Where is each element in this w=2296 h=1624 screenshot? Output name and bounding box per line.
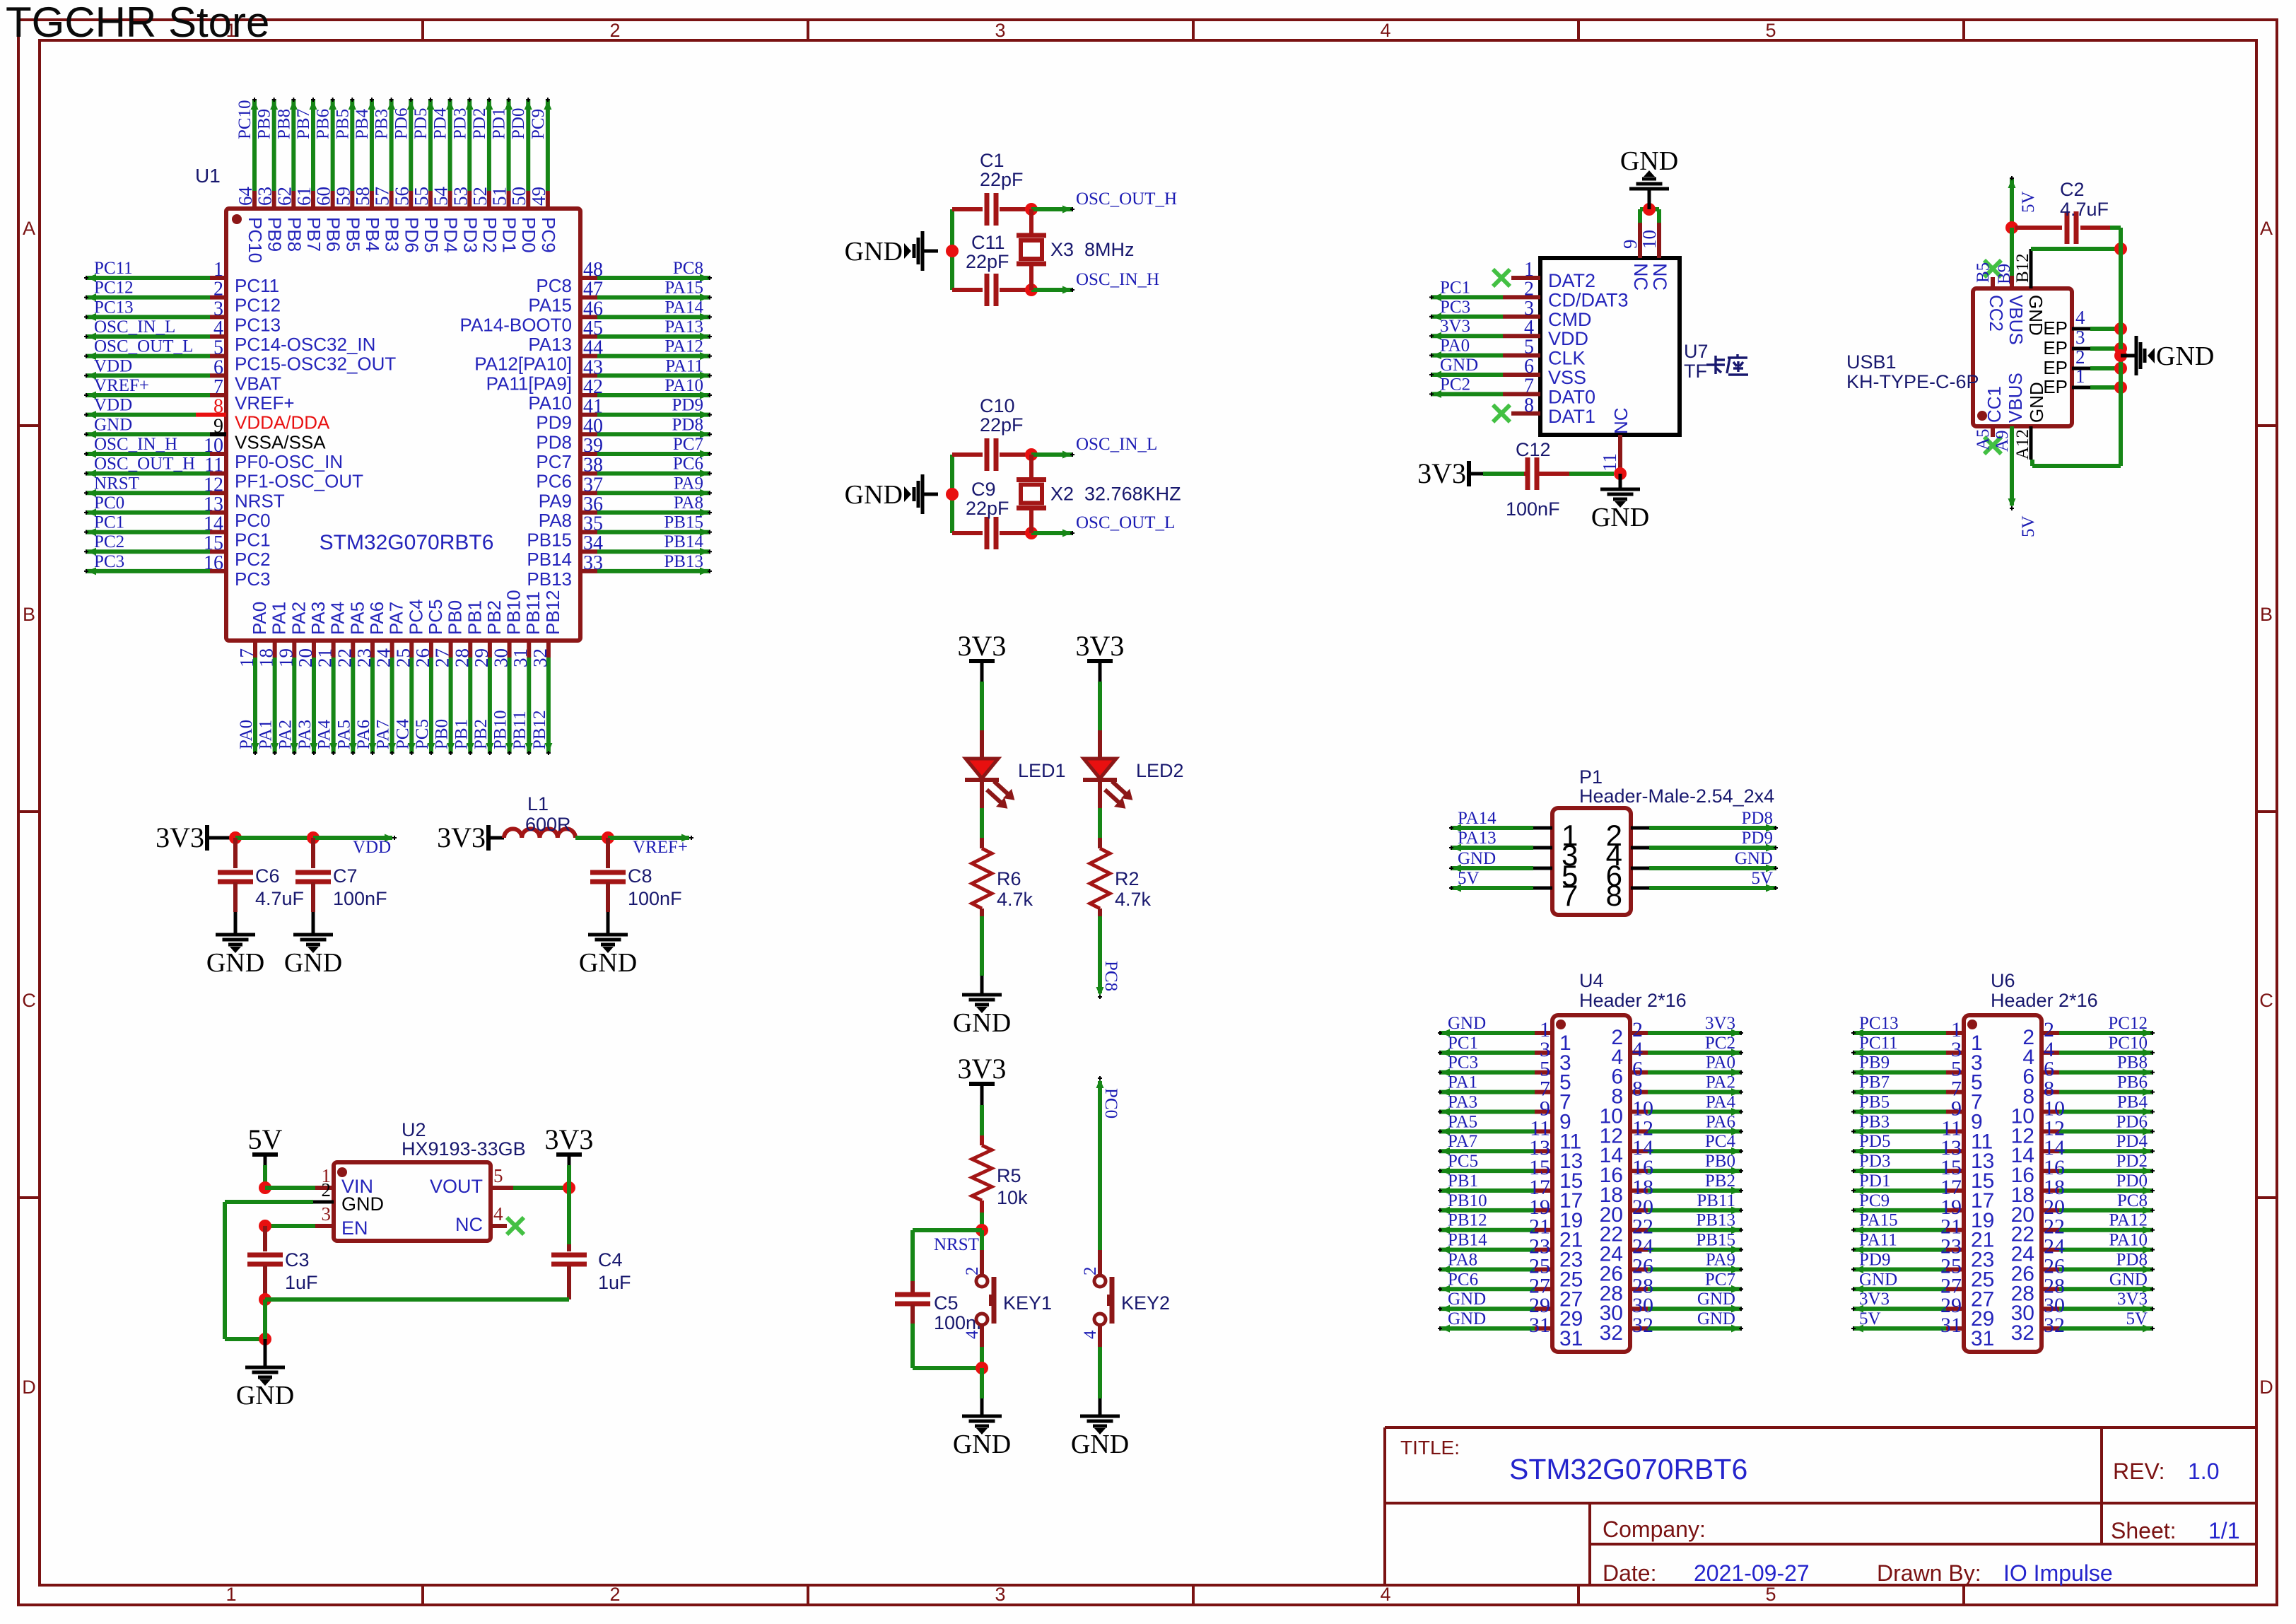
svg-text:3V3: 3V3 (1417, 457, 1466, 489)
svg-text:2: 2 (2075, 346, 2085, 368)
svg-text:D: D (2259, 1377, 2273, 1398)
svg-text:PB12: PB12 (1448, 1211, 1487, 1230)
svg-text:B: B (23, 604, 35, 625)
svg-text:22pF: 22pF (966, 498, 1009, 519)
svg-text:3: 3 (213, 298, 223, 320)
svg-text:GND: GND (1440, 356, 1478, 375)
svg-text:PB9: PB9 (264, 217, 286, 252)
svg-text:NC: NC (1649, 263, 1670, 291)
svg-text:A: A (23, 218, 35, 239)
svg-text:64: 64 (235, 187, 256, 206)
svg-text:PA13: PA13 (1458, 829, 1496, 848)
svg-text:3V3: 3V3 (1859, 1290, 1890, 1309)
svg-text:PB12: PB12 (542, 590, 563, 635)
svg-text:GND: GND (94, 415, 132, 434)
svg-text:53: 53 (450, 187, 471, 206)
svg-text:20: 20 (295, 648, 316, 667)
svg-text:38: 38 (583, 455, 603, 477)
svg-text:6: 6 (213, 356, 223, 378)
svg-text:GND: GND (341, 1193, 384, 1215)
svg-text:32: 32 (2044, 1314, 2065, 1337)
svg-text:KEY2: KEY2 (1121, 1292, 1170, 1314)
svg-text:C8: C8 (628, 865, 652, 887)
svg-text:TGCHR Store: TGCHR Store (6, 0, 269, 46)
svg-text:GND: GND (579, 948, 637, 978)
svg-text:4: 4 (1380, 20, 1390, 41)
svg-text:PB7: PB7 (1859, 1073, 1890, 1092)
svg-text:PA6: PA6 (1706, 1112, 1735, 1131)
svg-text:REV:: REV: (2113, 1459, 2165, 1484)
svg-text:PB3: PB3 (382, 217, 403, 252)
svg-text:GND: GND (1448, 1014, 1486, 1033)
svg-text:PC13: PC13 (235, 314, 281, 335)
svg-text:3: 3 (995, 1584, 1005, 1605)
svg-text:TF: TF (1684, 361, 1707, 382)
svg-text:Drawn By:: Drawn By: (1877, 1560, 1981, 1586)
svg-text:PC1: PC1 (94, 513, 124, 532)
svg-text:PA9: PA9 (539, 490, 572, 511)
svg-text:A12: A12 (2013, 429, 2032, 460)
svg-text:PB4: PB4 (362, 217, 383, 252)
svg-text:PA12[PA10]: PA12[PA10] (474, 354, 572, 375)
svg-text:31: 31 (1559, 1327, 1583, 1350)
svg-text:PD8: PD8 (2116, 1250, 2148, 1269)
svg-text:14: 14 (204, 513, 223, 535)
svg-text:PA2: PA2 (276, 720, 295, 749)
svg-text:B9: B9 (1995, 264, 2014, 284)
svg-text:PC13: PC13 (94, 298, 134, 317)
svg-text:7: 7 (1524, 375, 1534, 397)
svg-text:Date:: Date: (1603, 1560, 1656, 1586)
svg-text:12: 12 (204, 474, 223, 496)
svg-text:43: 43 (583, 356, 603, 378)
svg-text:PA15: PA15 (664, 279, 703, 298)
svg-text:3: 3 (1524, 298, 1534, 320)
svg-text:100nF: 100nF (628, 888, 682, 909)
svg-text:LED1: LED1 (1018, 760, 1066, 781)
svg-text:Sheet:: Sheet: (2111, 1518, 2177, 1543)
svg-text:PA14: PA14 (664, 298, 703, 317)
svg-text:R2: R2 (1115, 868, 1140, 889)
svg-text:30: 30 (491, 648, 512, 667)
svg-text:13: 13 (204, 493, 223, 515)
svg-text:C5: C5 (934, 1292, 959, 1314)
svg-text:L1: L1 (527, 793, 549, 814)
svg-text:CMD: CMD (1548, 309, 1592, 330)
svg-text:U1: U1 (195, 165, 221, 187)
svg-text:52: 52 (469, 187, 491, 206)
svg-text:25: 25 (392, 648, 414, 667)
svg-text:PD6: PD6 (392, 108, 411, 139)
svg-text:16: 16 (204, 552, 223, 574)
svg-text:47: 47 (583, 279, 603, 300)
svg-text:3: 3 (322, 1203, 332, 1225)
svg-text:46: 46 (583, 298, 603, 320)
svg-text:28: 28 (451, 648, 472, 667)
svg-text:PD0: PD0 (509, 108, 528, 139)
svg-text:PA10: PA10 (528, 392, 572, 414)
svg-text:PC0: PC0 (235, 510, 271, 531)
svg-text:OSC_OUT_H: OSC_OUT_H (1076, 189, 1177, 209)
svg-text:PA11: PA11 (1859, 1231, 1897, 1250)
svg-text:PC6: PC6 (1448, 1270, 1478, 1289)
svg-text:PC3: PC3 (1448, 1053, 1478, 1073)
svg-text:PC15-OSC32_OUT: PC15-OSC32_OUT (235, 354, 396, 375)
svg-text:5: 5 (1524, 337, 1534, 358)
svg-text:4: 4 (1380, 1584, 1390, 1605)
svg-text:PA13: PA13 (664, 317, 703, 337)
svg-text:PA10: PA10 (664, 376, 703, 395)
svg-text:GND: GND (953, 1008, 1011, 1038)
svg-text:10: 10 (1639, 230, 1660, 249)
svg-text:IO Impulse: IO Impulse (2003, 1560, 2113, 1586)
svg-text:PC9: PC9 (538, 217, 559, 253)
svg-text:PA2: PA2 (1706, 1073, 1735, 1092)
svg-text:PD4: PD4 (440, 217, 462, 253)
svg-text:PB6: PB6 (314, 109, 333, 139)
svg-text:VREF+: VREF+ (633, 838, 688, 857)
svg-text:R5: R5 (997, 1165, 1021, 1186)
svg-text:CLK: CLK (1548, 348, 1586, 369)
svg-text:OSC_IN_L: OSC_IN_L (1076, 435, 1157, 454)
svg-text:PA5: PA5 (334, 720, 353, 749)
svg-text:37: 37 (583, 474, 603, 496)
svg-text:1uF: 1uF (598, 1272, 631, 1293)
svg-text:PD3: PD3 (450, 108, 469, 139)
svg-text:PD8: PD8 (536, 431, 572, 452)
svg-text:5: 5 (1765, 1584, 1776, 1605)
svg-text:EP: EP (2043, 357, 2068, 378)
svg-text:PB11: PB11 (522, 591, 544, 635)
svg-text:2: 2 (322, 1179, 332, 1201)
svg-text:PB2: PB2 (484, 600, 505, 635)
svg-text:PD4: PD4 (2116, 1132, 2148, 1151)
svg-text:CC1: CC1 (1984, 386, 2005, 423)
svg-text:PA4: PA4 (315, 719, 334, 749)
svg-text:48: 48 (583, 259, 603, 281)
svg-text:PB15: PB15 (527, 530, 572, 551)
svg-text:LED2: LED2 (1136, 760, 1184, 781)
svg-text:PC9: PC9 (529, 109, 548, 139)
svg-text:60: 60 (313, 187, 334, 206)
svg-text:PB0: PB0 (1705, 1152, 1735, 1171)
svg-text:39: 39 (583, 435, 603, 457)
svg-text:PD5: PD5 (1859, 1132, 1890, 1151)
svg-text:PC11: PC11 (1859, 1034, 1898, 1053)
svg-text:OSC_OUT_L: OSC_OUT_L (1076, 513, 1175, 532)
svg-text:7: 7 (1562, 879, 1578, 912)
svg-text:A5: A5 (1974, 428, 1993, 450)
svg-text:PC4: PC4 (1705, 1132, 1736, 1151)
svg-text:32: 32 (2011, 1321, 2034, 1345)
svg-text:GND: GND (2156, 341, 2214, 371)
svg-text:GND: GND (2109, 1270, 2148, 1289)
svg-text:OSC_IN_L: OSC_IN_L (94, 317, 175, 337)
svg-text:PC14-OSC32_IN: PC14-OSC32_IN (235, 334, 375, 355)
svg-text:PC1: PC1 (1440, 278, 1470, 297)
svg-text:3: 3 (2075, 327, 2085, 348)
svg-text:31: 31 (1529, 1314, 1550, 1337)
svg-text:Header-Male-2.54_2x4: Header-Male-2.54_2x4 (1579, 785, 1774, 807)
svg-text:3V3: 3V3 (545, 1123, 594, 1155)
svg-text:VBUS: VBUS (2005, 295, 2027, 345)
svg-text:2: 2 (1081, 1267, 1100, 1276)
svg-text:PB13: PB13 (527, 568, 572, 590)
svg-text:8: 8 (213, 396, 223, 418)
svg-text:24: 24 (373, 648, 394, 668)
svg-text:100nF: 100nF (333, 888, 387, 909)
svg-text:27: 27 (432, 648, 453, 667)
svg-text:PD3: PD3 (459, 217, 481, 253)
svg-text:PB2: PB2 (1705, 1172, 1735, 1191)
svg-text:PA14: PA14 (1458, 809, 1496, 828)
svg-text:PD0: PD0 (2116, 1172, 2148, 1191)
svg-text:PA4: PA4 (327, 602, 348, 635)
svg-text:PB4: PB4 (353, 108, 372, 139)
svg-text:PA0: PA0 (1706, 1053, 1735, 1073)
svg-text:GND: GND (1071, 1430, 1129, 1459)
svg-text:50: 50 (508, 187, 529, 206)
svg-text:PA5: PA5 (346, 602, 368, 635)
svg-text:Header 2*16: Header 2*16 (1579, 990, 1687, 1011)
svg-text:VBUS: VBUS (2005, 373, 2026, 423)
svg-text:49: 49 (528, 187, 549, 206)
svg-text:PA3: PA3 (295, 720, 315, 749)
svg-text:TITLE:: TITLE: (1400, 1437, 1460, 1459)
svg-text:U6: U6 (1991, 970, 2015, 991)
svg-text:32: 32 (1632, 1314, 1653, 1337)
svg-text:PA4: PA4 (1706, 1092, 1736, 1111)
svg-text:EP: EP (2043, 317, 2068, 339)
svg-text:42: 42 (583, 376, 603, 398)
svg-text:PB8: PB8 (283, 217, 305, 252)
svg-text:41: 41 (583, 396, 603, 418)
svg-text:PB3: PB3 (1859, 1112, 1890, 1131)
svg-text:VOUT: VOUT (430, 1176, 483, 1197)
svg-text:PC3: PC3 (1440, 298, 1470, 317)
svg-text:PD6: PD6 (401, 217, 422, 253)
svg-text:3V3: 3V3 (2117, 1290, 2148, 1309)
svg-text:PB1: PB1 (464, 600, 485, 635)
svg-text:5V: 5V (248, 1123, 283, 1155)
svg-text:17: 17 (236, 648, 257, 667)
svg-text:PA6: PA6 (366, 602, 387, 635)
svg-text:PC0: PC0 (1101, 1088, 1120, 1118)
svg-text:PD1: PD1 (499, 217, 520, 253)
svg-text:5: 5 (1765, 20, 1776, 41)
svg-text:PC10: PC10 (235, 100, 254, 139)
svg-text:DAT2: DAT2 (1548, 270, 1595, 291)
svg-text:OSC_IN_H: OSC_IN_H (94, 435, 177, 454)
svg-text:62: 62 (274, 187, 295, 206)
svg-text:2: 2 (213, 279, 223, 300)
svg-text:P1: P1 (1579, 766, 1603, 788)
svg-text:GND: GND (1735, 849, 1773, 868)
svg-text:PA7: PA7 (1448, 1132, 1477, 1151)
svg-text:4.7k: 4.7k (1115, 889, 1152, 910)
svg-text:PC12: PC12 (235, 295, 281, 316)
svg-text:B: B (2260, 604, 2273, 625)
svg-text:PC6: PC6 (536, 471, 572, 492)
svg-text:1.0: 1.0 (2188, 1459, 2219, 1484)
svg-text:22: 22 (334, 648, 355, 667)
svg-text:NRST: NRST (235, 490, 285, 511)
svg-text:VDD: VDD (1548, 328, 1588, 349)
svg-text:4.7k: 4.7k (997, 889, 1033, 910)
svg-text:63: 63 (254, 187, 276, 206)
svg-text:PC2: PC2 (1705, 1034, 1735, 1053)
svg-text:5V: 5V (1859, 1309, 1881, 1328)
svg-text:PC12: PC12 (94, 279, 134, 298)
svg-text:8: 8 (1606, 879, 1622, 912)
svg-text:31: 31 (510, 648, 531, 667)
svg-text:OSC_OUT_L: OSC_OUT_L (94, 337, 193, 356)
svg-text:PA14-BOOT0: PA14-BOOT0 (460, 314, 572, 335)
svg-text:PC9: PC9 (1859, 1191, 1890, 1210)
svg-text:PB7: PB7 (294, 109, 313, 139)
svg-text:23: 23 (353, 648, 375, 667)
svg-text:4: 4 (1081, 1330, 1100, 1339)
svg-text:34: 34 (583, 532, 603, 554)
svg-text:4: 4 (963, 1330, 982, 1339)
svg-text:PA13: PA13 (528, 334, 572, 355)
svg-text:35: 35 (583, 513, 603, 535)
svg-text:5: 5 (493, 1165, 503, 1186)
svg-text:STM32G070RBT6: STM32G070RBT6 (1509, 1453, 1747, 1485)
svg-text:PB1: PB1 (452, 719, 471, 749)
svg-text:PD2: PD2 (470, 108, 489, 139)
svg-text:PA0: PA0 (237, 720, 256, 749)
svg-text:3V3: 3V3 (958, 1053, 1007, 1085)
svg-text:PC7: PC7 (536, 451, 572, 472)
svg-text:PC1: PC1 (235, 530, 271, 551)
svg-text:PB15: PB15 (1696, 1231, 1735, 1250)
svg-text:PB5: PB5 (1859, 1092, 1890, 1111)
svg-text:C3: C3 (285, 1249, 310, 1270)
svg-text:4: 4 (493, 1203, 503, 1225)
svg-text:NC: NC (1630, 263, 1651, 291)
svg-text:PC7: PC7 (673, 435, 703, 454)
svg-text:PA11[PA9]: PA11[PA9] (486, 373, 572, 394)
svg-text:PC2: PC2 (1440, 375, 1470, 394)
svg-text:GND: GND (236, 1381, 294, 1410)
svg-text:100nF: 100nF (1506, 498, 1560, 520)
svg-text:1: 1 (213, 259, 223, 281)
svg-text:19: 19 (275, 648, 296, 667)
svg-text:1: 1 (1524, 259, 1534, 281)
svg-text:EP: EP (2043, 337, 2068, 358)
svg-text:PB2: PB2 (471, 719, 491, 749)
svg-text:PA2: PA2 (288, 602, 309, 635)
svg-text:Header 2*16: Header 2*16 (1991, 990, 2098, 1011)
svg-text:56: 56 (391, 187, 412, 206)
svg-text:5: 5 (213, 337, 223, 359)
svg-text:4: 4 (2075, 307, 2085, 328)
svg-text:45: 45 (583, 317, 603, 339)
svg-text:PD9: PD9 (672, 396, 703, 415)
svg-text:58: 58 (352, 187, 373, 206)
svg-text:C10: C10 (980, 395, 1015, 416)
svg-text:NC: NC (1610, 407, 1632, 434)
svg-text:PC8: PC8 (536, 275, 572, 296)
svg-text:PA1: PA1 (257, 720, 276, 749)
svg-text:VSS: VSS (1548, 367, 1586, 388)
svg-text:PB13: PB13 (664, 552, 703, 571)
svg-text:C7: C7 (333, 865, 358, 887)
svg-text:PD3: PD3 (1859, 1152, 1890, 1171)
svg-text:CC2: CC2 (1986, 295, 2007, 332)
svg-text:PB15: PB15 (664, 513, 703, 532)
svg-text:2: 2 (609, 1584, 620, 1605)
svg-text:PC0: PC0 (94, 493, 124, 513)
svg-text:1uF: 1uF (285, 1272, 318, 1293)
svg-text:C2: C2 (2060, 179, 2085, 200)
svg-text:29: 29 (471, 648, 492, 667)
svg-text:3V3: 3V3 (958, 630, 1007, 662)
svg-text:18: 18 (256, 648, 277, 667)
svg-text:PD8: PD8 (672, 415, 703, 434)
svg-text:51: 51 (489, 187, 510, 206)
svg-text:PB7: PB7 (303, 217, 324, 252)
svg-text:600R: 600R (525, 814, 571, 835)
svg-text:PB6: PB6 (323, 217, 344, 252)
svg-text:PA3: PA3 (1448, 1092, 1477, 1111)
svg-text:33: 33 (583, 552, 603, 574)
svg-text:PD5: PD5 (411, 108, 430, 139)
svg-text:6: 6 (1524, 356, 1534, 378)
svg-text:36: 36 (583, 493, 603, 515)
svg-text:NRST: NRST (94, 474, 139, 493)
svg-text:OSC_IN_H: OSC_IN_H (1076, 270, 1159, 289)
svg-text:GND: GND (845, 480, 903, 510)
svg-text:GND: GND (2026, 382, 2047, 423)
svg-text:PD0: PD0 (518, 217, 539, 253)
svg-text:PB0: PB0 (445, 600, 466, 635)
svg-text:CD/DAT3: CD/DAT3 (1548, 289, 1629, 310)
svg-text:PA15: PA15 (528, 295, 572, 316)
svg-text:PB12: PB12 (530, 710, 549, 749)
svg-text:VDD: VDD (94, 396, 132, 415)
svg-text:PC5: PC5 (413, 719, 432, 749)
svg-text:PA7: PA7 (386, 602, 407, 635)
svg-text:5V: 5V (2126, 1309, 2148, 1328)
svg-text:32: 32 (529, 648, 551, 667)
svg-text:PA0: PA0 (249, 602, 270, 635)
svg-text:PB5: PB5 (342, 217, 363, 252)
svg-text:PD9: PD9 (536, 412, 572, 433)
svg-text:PC8: PC8 (1101, 961, 1120, 991)
svg-text:GND: GND (845, 237, 903, 267)
svg-text:PA9: PA9 (1706, 1250, 1735, 1269)
svg-text:21: 21 (315, 648, 336, 667)
svg-text:GND: GND (284, 948, 342, 978)
svg-text:2: 2 (963, 1267, 982, 1276)
svg-text:C11: C11 (971, 232, 1005, 253)
svg-text:32: 32 (1600, 1321, 1623, 1345)
svg-text:31: 31 (1940, 1314, 1962, 1337)
svg-text:4: 4 (1524, 317, 1534, 339)
svg-text:2021-09-27: 2021-09-27 (1694, 1560, 1810, 1586)
svg-text:GND: GND (1591, 503, 1649, 532)
svg-text:2: 2 (1524, 278, 1534, 300)
svg-text:PD9: PD9 (1742, 829, 1773, 848)
svg-text:PD1: PD1 (1859, 1172, 1890, 1191)
svg-text:C: C (22, 990, 36, 1011)
svg-text:PA10: PA10 (2109, 1231, 2148, 1250)
svg-text:PC12: PC12 (2108, 1014, 2148, 1033)
svg-text:PA5: PA5 (1448, 1112, 1477, 1131)
svg-text:EN: EN (341, 1217, 368, 1239)
